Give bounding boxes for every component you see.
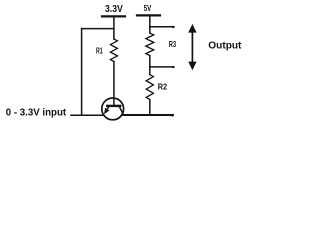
wire tap upper (output top): [150, 26, 174, 28]
power rail 5V bar: [137, 14, 160, 16]
svg-text:3.3V: 3.3V: [105, 4, 123, 15]
svg-text:R3: R3: [169, 39, 177, 49]
resistor R2: [146, 75, 153, 100]
resistor R1: [110, 39, 117, 62]
transistor Q1 base bar: [107, 105, 120, 107]
wire R2 down to bottom rail: [149, 100, 151, 116]
wire horizontal to left branch: [82, 28, 114, 30]
resistor R3: [146, 33, 154, 56]
svg-text:Output: Output: [208, 41, 242, 52]
wire R3 to R2: [149, 56, 151, 75]
wire left vertical to input: [81, 29, 83, 116]
svg-text:R2: R2: [158, 81, 168, 91]
power rail 3.3V bar: [102, 15, 125, 17]
transistor Q1: [102, 98, 124, 120]
svg-text:0 - 3.3V input: 0 - 3.3V input: [6, 107, 67, 118]
junction blob tap lower end: [172, 66, 174, 68]
output range arrow (double headed): [191, 30, 193, 65]
transistor Q1 emitter with arrow: [105, 106, 109, 112]
transistor Q1 collector: [119, 107, 123, 115]
svg-text:5V: 5V: [144, 3, 152, 13]
wire 5V down to R3: [149, 16, 151, 33]
junction blob rail end: [171, 114, 174, 117]
wire tap lower (output bottom): [150, 66, 174, 68]
junction blob tap upper end: [172, 26, 174, 28]
wire R1 down to transistor base: [113, 62, 115, 106]
svg-text:R1: R1: [96, 47, 103, 56]
wire bottom rail from transistor: [123, 114, 173, 116]
wire input to transistor emitter: [71, 114, 104, 116]
wire 3.3V rail down to R1: [113, 17, 115, 39]
